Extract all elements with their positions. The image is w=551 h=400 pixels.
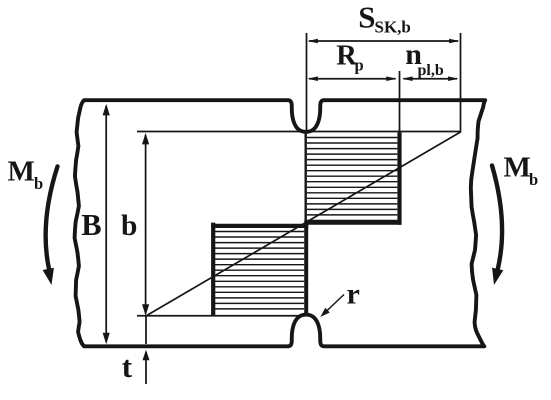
svg-text:t: t (122, 349, 133, 384)
svg-text:b: b (34, 174, 43, 193)
svg-text:M: M (504, 152, 531, 184)
svg-text:M: M (8, 155, 35, 187)
svg-text:S: S (358, 0, 375, 34)
svg-text:p: p (355, 56, 364, 75)
svg-text:SK,b: SK,b (375, 17, 411, 36)
svg-text:r: r (347, 278, 360, 311)
svg-text:pl,b: pl,b (418, 62, 444, 79)
svg-text:b: b (529, 170, 538, 189)
svg-text:b: b (121, 210, 137, 242)
svg-text:B: B (81, 208, 101, 242)
